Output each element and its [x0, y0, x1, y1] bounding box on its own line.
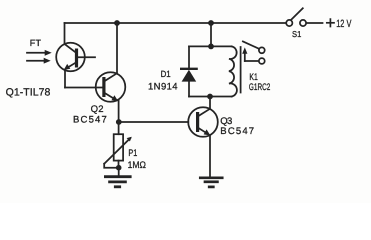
light arrow 1 into Q1 — [27, 50, 52, 56]
svg-text:Q1-TIL78: Q1-TIL78 — [6, 86, 51, 98]
relay contact blade — [243, 41, 259, 48]
relay bottom wire — [189, 96, 232, 98]
wire Q2 emitter drop — [118, 100, 120, 122]
phototransistor Q1 — [56, 43, 95, 72]
wire Q1 collector riser — [64, 23, 66, 44]
svg-text:Q3: Q3 — [220, 116, 232, 127]
wire Q1 emitter to Q2 base — [65, 87, 102, 89]
node junction dot rail-Q2 — [114, 20, 120, 26]
svg-text:12 V: 12 V — [336, 18, 351, 30]
svg-text:P1: P1 — [128, 148, 137, 159]
wire diode branch lower — [188, 82, 190, 97]
ground (Q3) — [200, 178, 222, 187]
switch S1 — [286, 8, 306, 26]
ground (P1) — [105, 177, 130, 187]
svg-text:FT: FT — [30, 38, 42, 48]
svg-text:BC547: BC547 — [220, 126, 254, 137]
wire diode branch upper — [188, 46, 190, 68]
svg-text:1MΩ: 1MΩ — [128, 160, 146, 171]
relay contact lower terminal — [259, 58, 265, 64]
label +12V — [327, 19, 334, 26]
svg-text:S1: S1 — [292, 29, 302, 39]
relay contact common wire — [245, 60, 259, 62]
wire Q3 emitter drop — [209, 136, 211, 177]
transistor Q2 — [96, 72, 126, 102]
node junction dot relay bottom — [207, 94, 213, 100]
diode D1 — [181, 69, 196, 82]
wire Q2 collector riser — [116, 23, 118, 73]
transistor Q3 — [188, 107, 218, 137]
wire node to P1 — [118, 122, 120, 134]
relay actuation arrow — [242, 47, 247, 61]
relay armature line — [240, 47, 242, 93]
wire relay to Q3 collector — [209, 97, 211, 109]
svg-text:D1: D1 — [161, 69, 171, 79]
relay top wire — [189, 45, 232, 47]
svg-text:BC547: BC547 — [73, 115, 107, 126]
node junction dot relay top — [208, 44, 214, 50]
wire P1 to ground — [118, 168, 120, 177]
svg-text:G1RC2: G1RC2 — [249, 82, 270, 93]
wire node to Q3 base — [119, 121, 189, 123]
relay coil K1 — [229, 46, 237, 96]
wire relay feed drop — [210, 23, 212, 46]
svg-text:Q2: Q2 — [91, 104, 104, 115]
node junction dot rail-relay — [208, 20, 214, 26]
svg-text:1N914: 1N914 — [148, 82, 178, 93]
wire top supply rail — [65, 22, 286, 24]
node junction dot P1 wiper — [116, 165, 122, 171]
relay contact upper terminal — [259, 47, 265, 53]
wire Q1 emitter drop — [64, 70, 66, 87]
potentiometer P1 — [104, 134, 132, 168]
node junction dot Q2e/P1/Q3b — [116, 119, 122, 125]
wire S1 to +12V — [307, 22, 323, 24]
light arrow 2 into Q1 — [27, 58, 51, 64]
